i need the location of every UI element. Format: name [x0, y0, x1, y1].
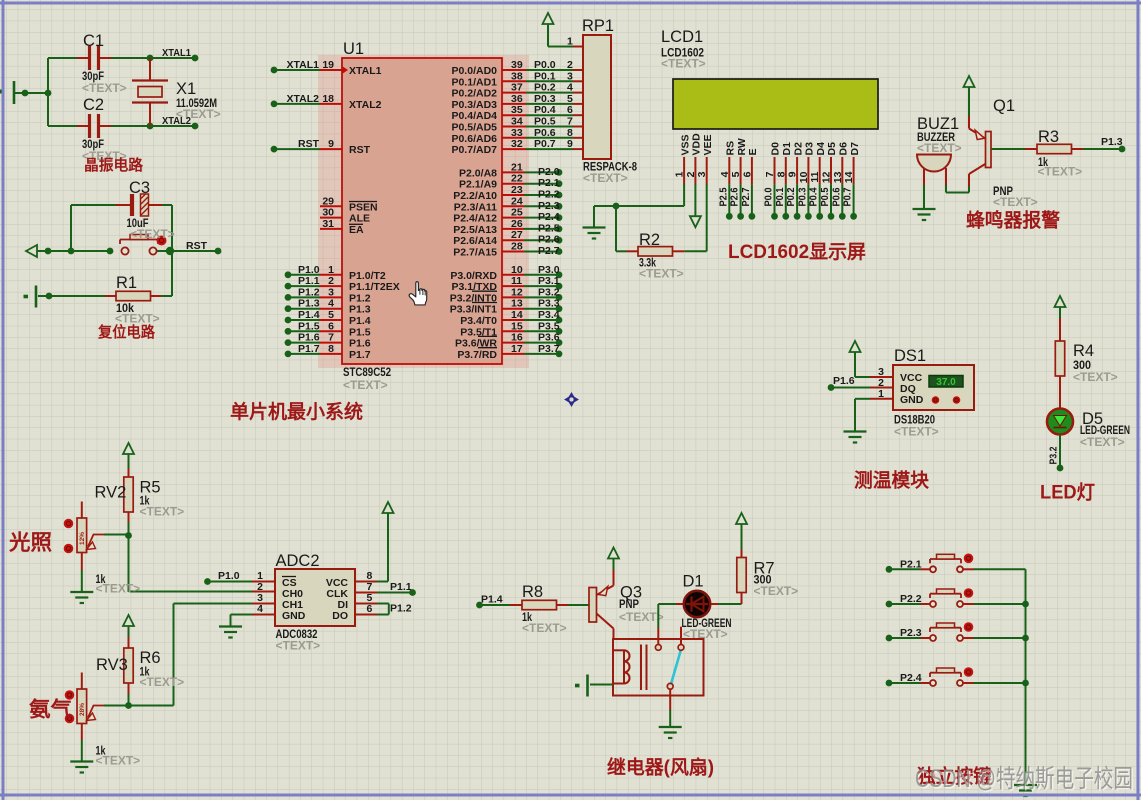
svg-text:P1.0: P1.0 — [218, 570, 240, 582]
svg-text:P1.4: P1.4 — [349, 315, 371, 327]
svg-text:光照: 光照 — [8, 532, 52, 555]
svg-text:P0.5: P0.5 — [534, 116, 556, 128]
svg-text:9: 9 — [328, 138, 334, 150]
svg-text:27: 27 — [511, 229, 523, 241]
svg-text:XTAL1: XTAL1 — [349, 65, 382, 77]
svg-text:P1.4: P1.4 — [298, 309, 320, 321]
svg-text:P0.2/AD2: P0.2/AD2 — [451, 88, 497, 100]
svg-text:36: 36 — [511, 93, 523, 105]
svg-text:P2.0: P2.0 — [538, 166, 560, 178]
svg-text:37: 37 — [511, 82, 523, 94]
svg-text:P0.3: P0.3 — [534, 93, 556, 105]
svg-text:P3.6: P3.6 — [538, 332, 560, 344]
svg-text:P0.1: P0.1 — [774, 187, 786, 206]
svg-text:5: 5 — [328, 309, 334, 321]
svg-text:<TEXT>: <TEXT> — [82, 81, 127, 95]
svg-text:P2.1: P2.1 — [900, 558, 922, 570]
svg-text:P2.1: P2.1 — [538, 177, 560, 189]
svg-text:U1: U1 — [343, 40, 364, 58]
svg-text:<TEXT>: <TEXT> — [993, 195, 1038, 209]
svg-text:P0.1/AD1: P0.1/AD1 — [451, 76, 497, 88]
svg-text:ALE: ALE — [349, 213, 370, 225]
svg-text:22: 22 — [511, 173, 523, 185]
svg-text:P0.2: P0.2 — [534, 82, 556, 94]
svg-text:<TEXT>: <TEXT> — [917, 141, 962, 155]
svg-text:P0.4: P0.4 — [808, 187, 820, 206]
svg-text:1: 1 — [328, 264, 334, 276]
svg-text:P0.7/AD7: P0.7/AD7 — [451, 144, 497, 156]
svg-text:4: 4 — [719, 171, 731, 177]
svg-text:P1.6: P1.6 — [298, 332, 320, 344]
svg-text:<TEXT>: <TEXT> — [1080, 435, 1125, 449]
svg-text:RW: RW — [736, 138, 748, 155]
svg-text:<TEXT>: <TEXT> — [661, 57, 706, 71]
svg-text:GND: GND — [900, 394, 924, 406]
svg-text:<TEXT>: <TEXT> — [96, 754, 141, 768]
svg-text:RP1: RP1 — [582, 17, 614, 35]
svg-text:1: 1 — [567, 36, 573, 48]
svg-text:P1.5: P1.5 — [298, 320, 320, 332]
svg-text:38: 38 — [511, 70, 523, 82]
svg-text:P1.2: P1.2 — [298, 286, 320, 298]
svg-text:P3.2: P3.2 — [1048, 446, 1060, 464]
svg-text:P1.7: P1.7 — [349, 349, 371, 361]
svg-text:D4: D4 — [815, 142, 827, 156]
svg-text:VSS: VSS — [679, 134, 691, 155]
svg-text:9: 9 — [567, 138, 573, 150]
svg-text:5: 5 — [567, 93, 573, 105]
svg-text:35: 35 — [511, 104, 523, 116]
svg-text:P1.7: P1.7 — [298, 343, 320, 355]
svg-text:2: 2 — [328, 275, 334, 287]
svg-text:6: 6 — [567, 104, 573, 116]
svg-text:P3.2: P3.2 — [538, 286, 560, 298]
svg-text:P3.0/RXD: P3.0/RXD — [450, 270, 497, 282]
svg-text:P2.3/A11: P2.3/A11 — [454, 201, 497, 213]
svg-text:P1.3: P1.3 — [298, 298, 320, 310]
svg-text:<TEXT>: <TEXT> — [276, 639, 321, 653]
svg-text:<TEXT>: <TEXT> — [1073, 370, 1118, 384]
svg-text:VEE: VEE — [702, 134, 714, 155]
svg-text:DO: DO — [332, 610, 348, 622]
svg-text:6: 6 — [741, 171, 753, 177]
svg-text:P0.6/AD6: P0.6/AD6 — [451, 133, 497, 145]
svg-text:P2.4: P2.4 — [900, 672, 922, 684]
svg-text:<TEXT>: <TEXT> — [1038, 165, 1083, 179]
svg-text:39: 39 — [511, 59, 523, 71]
svg-text:9: 9 — [787, 171, 799, 177]
svg-text:33: 33 — [511, 127, 523, 139]
svg-text:VDD: VDD — [691, 133, 703, 156]
svg-text:4: 4 — [328, 298, 334, 310]
svg-text:ADC2: ADC2 — [276, 552, 320, 570]
svg-text:19: 19 — [322, 59, 334, 71]
svg-text:RV3: RV3 — [96, 656, 128, 674]
svg-text:P2.7: P2.7 — [740, 187, 752, 206]
svg-text:5: 5 — [730, 171, 742, 177]
svg-text:17: 17 — [511, 343, 523, 355]
svg-text:C1: C1 — [83, 32, 104, 50]
svg-text:31: 31 — [322, 218, 334, 230]
svg-text:32: 32 — [511, 138, 523, 150]
svg-text:8: 8 — [567, 127, 573, 139]
svg-text:2: 2 — [567, 59, 573, 71]
svg-text:LED灯: LED灯 — [1040, 482, 1095, 504]
svg-text:P1.5: P1.5 — [349, 326, 371, 338]
svg-text:D5: D5 — [826, 142, 838, 156]
svg-text:P2.5: P2.5 — [538, 222, 560, 234]
svg-text:8: 8 — [775, 171, 787, 177]
svg-text:P2.4: P2.4 — [538, 211, 560, 223]
svg-text:11: 11 — [511, 275, 522, 287]
svg-text:P3.5: P3.5 — [538, 320, 560, 332]
svg-text:14: 14 — [843, 171, 855, 183]
svg-text:<TEXT>: <TEXT> — [894, 425, 939, 439]
svg-text:6: 6 — [328, 320, 334, 332]
svg-text:测温模块: 测温模块 — [854, 469, 930, 492]
svg-text:P0.6: P0.6 — [534, 127, 556, 139]
svg-text:P1.6: P1.6 — [833, 375, 855, 387]
svg-text:D1: D1 — [683, 573, 704, 591]
svg-text:D6: D6 — [838, 142, 850, 156]
svg-text:D1: D1 — [781, 142, 793, 156]
svg-text:37.0: 37.0 — [936, 377, 956, 388]
svg-text:34: 34 — [511, 116, 523, 128]
svg-text:P2.0/A8: P2.0/A8 — [459, 167, 497, 179]
svg-text:复位电路: 复位电路 — [97, 323, 156, 341]
svg-text:P2.6: P2.6 — [538, 234, 560, 246]
svg-text:P1.1: P1.1 — [298, 275, 320, 287]
svg-text:28: 28 — [511, 241, 523, 253]
svg-text:氨气: 氨气 — [29, 698, 72, 722]
svg-text:8: 8 — [328, 343, 334, 355]
svg-text:P2.3: P2.3 — [538, 200, 560, 212]
svg-text:P1.1: P1.1 — [390, 581, 412, 593]
svg-text:P1.2: P1.2 — [349, 292, 371, 304]
svg-text:<TEXT>: <TEXT> — [619, 610, 664, 624]
svg-text:18: 18 — [322, 93, 334, 105]
svg-text:P2.5/A13: P2.5/A13 — [453, 224, 497, 236]
svg-text:C2: C2 — [83, 96, 104, 114]
svg-text:P1.3: P1.3 — [1101, 136, 1123, 148]
svg-text:<TEXT>: <TEXT> — [522, 621, 567, 635]
svg-text:XTAL2: XTAL2 — [349, 99, 382, 111]
svg-text:P2.3: P2.3 — [900, 627, 922, 639]
svg-text:PSEN: PSEN — [349, 201, 378, 213]
svg-text:<TEXT>: <TEXT> — [683, 627, 728, 641]
svg-text:GND: GND — [282, 610, 306, 622]
svg-text:P3.4/T0: P3.4/T0 — [460, 315, 497, 327]
svg-text:16: 16 — [511, 332, 523, 344]
svg-text:EA: EA — [349, 224, 364, 236]
svg-text:21: 21 — [511, 161, 523, 173]
svg-text:CSDN @特纳斯电子校园: CSDN @特纳斯电子校园 — [915, 765, 1133, 793]
svg-text:12%: 12% — [79, 532, 86, 545]
svg-text:P1.1/T2EX: P1.1/T2EX — [349, 281, 400, 293]
svg-text:蜂鸣器报警: 蜂鸣器报警 — [966, 209, 1060, 232]
svg-text:12: 12 — [821, 171, 833, 183]
svg-text:P3.7/RD: P3.7/RD — [457, 349, 497, 361]
svg-text:C3: C3 — [129, 179, 150, 197]
svg-text:<TEXT>: <TEXT> — [754, 584, 799, 598]
svg-text:P3.4: P3.4 — [538, 309, 560, 321]
svg-text:RV2: RV2 — [95, 484, 127, 502]
svg-text:P3.3/INT1: P3.3/INT1 — [450, 304, 497, 316]
svg-text:P0.0: P0.0 — [763, 187, 775, 206]
svg-text:4: 4 — [567, 82, 573, 94]
svg-text:XTAL1: XTAL1 — [162, 47, 191, 59]
svg-text:P0.3: P0.3 — [796, 187, 808, 206]
svg-text:P2.7/A15: P2.7/A15 — [453, 247, 497, 259]
svg-text:P3.7: P3.7 — [538, 343, 560, 355]
svg-text:RST: RST — [349, 144, 371, 156]
svg-text:P2.6: P2.6 — [729, 187, 741, 206]
svg-text:P0.4: P0.4 — [534, 104, 556, 116]
svg-text:13: 13 — [511, 298, 523, 310]
svg-text:P0.0: P0.0 — [534, 59, 556, 71]
svg-text:1: 1 — [878, 388, 884, 400]
svg-text:R2: R2 — [639, 231, 660, 249]
svg-text:晶振电路: 晶振电路 — [84, 156, 144, 174]
svg-text:25: 25 — [511, 207, 523, 219]
svg-text:P3.0: P3.0 — [538, 264, 560, 276]
svg-text:P3.1: P3.1 — [538, 275, 560, 287]
svg-text:单片机最小系统: 单片机最小系统 — [230, 400, 363, 423]
svg-text:LCD1: LCD1 — [661, 28, 703, 46]
svg-text:11: 11 — [809, 171, 821, 182]
svg-text:26: 26 — [511, 218, 523, 230]
svg-text:6: 6 — [367, 603, 373, 615]
svg-text:D2: D2 — [792, 142, 804, 156]
svg-text:29: 29 — [322, 195, 334, 207]
svg-text:10: 10 — [511, 264, 523, 276]
svg-text:P0.7: P0.7 — [842, 187, 854, 206]
svg-text:P2.4/A12: P2.4/A12 — [453, 213, 497, 225]
svg-text:RS: RS — [725, 141, 737, 156]
svg-text:D0: D0 — [770, 142, 782, 156]
svg-text:P0.5: P0.5 — [819, 187, 831, 206]
svg-text:RST: RST — [186, 240, 208, 252]
svg-text:P0.5/AD5: P0.5/AD5 — [451, 122, 497, 134]
svg-text:P2.5: P2.5 — [717, 187, 729, 206]
svg-text:P0.2: P0.2 — [785, 187, 797, 206]
svg-text:P2.1/A9: P2.1/A9 — [459, 179, 497, 191]
svg-text:继电器(风扇): 继电器(风扇) — [607, 756, 714, 779]
svg-text:P1.6: P1.6 — [349, 338, 371, 350]
svg-text:P3.3: P3.3 — [538, 298, 560, 310]
svg-text:XTAL2: XTAL2 — [162, 115, 191, 127]
svg-text:P1.0: P1.0 — [298, 264, 320, 276]
svg-text:P2.2: P2.2 — [538, 189, 560, 201]
svg-text:<TEXT>: <TEXT> — [343, 378, 388, 392]
svg-text:P2.6/A14: P2.6/A14 — [453, 235, 497, 247]
svg-text:P0.1: P0.1 — [534, 70, 556, 82]
svg-text:<TEXT>: <TEXT> — [96, 582, 141, 596]
svg-text:<TEXT>: <TEXT> — [140, 505, 185, 519]
svg-text:DS1: DS1 — [894, 347, 926, 365]
svg-text:P0.3/AD3: P0.3/AD3 — [451, 99, 497, 111]
svg-text:P0.0/AD0: P0.0/AD0 — [451, 65, 497, 77]
svg-text:28%: 28% — [79, 703, 86, 716]
svg-text:7: 7 — [567, 116, 573, 128]
svg-text:LCD1602显示屏: LCD1602显示屏 — [728, 241, 866, 263]
svg-text:15: 15 — [511, 320, 523, 332]
svg-text:3: 3 — [567, 70, 573, 82]
svg-text:Q1: Q1 — [993, 97, 1015, 115]
svg-text:<TEXT>: <TEXT> — [583, 171, 628, 185]
svg-text:2: 2 — [685, 171, 697, 177]
svg-text:P2.2: P2.2 — [900, 593, 922, 605]
svg-text:P2.7: P2.7 — [538, 245, 560, 257]
svg-text:RST: RST — [298, 138, 320, 150]
svg-text:P0.4/AD4: P0.4/AD4 — [451, 110, 497, 122]
svg-text:P1.3: P1.3 — [349, 304, 371, 316]
svg-text:10: 10 — [798, 171, 810, 183]
svg-text:<TEXT>: <TEXT> — [639, 267, 684, 281]
svg-text:R8: R8 — [522, 583, 543, 601]
svg-text:3: 3 — [328, 286, 334, 298]
svg-text:XTAL2: XTAL2 — [287, 93, 320, 105]
svg-text:PNP: PNP — [619, 597, 639, 611]
svg-text:4: 4 — [257, 603, 263, 615]
svg-text:3: 3 — [696, 171, 708, 177]
svg-text:13: 13 — [832, 171, 844, 183]
svg-text:R3: R3 — [1038, 128, 1059, 146]
svg-text:STC89C52: STC89C52 — [343, 365, 391, 379]
svg-text:P1.2: P1.2 — [390, 603, 412, 615]
svg-text:<TEXT>: <TEXT> — [130, 227, 175, 241]
svg-text:P1.4: P1.4 — [481, 594, 503, 606]
svg-text:P0.6: P0.6 — [830, 187, 842, 206]
svg-text:7: 7 — [328, 332, 334, 344]
svg-text:24: 24 — [511, 195, 523, 207]
svg-text:P2.2/A10: P2.2/A10 — [453, 190, 497, 202]
svg-text:R1: R1 — [116, 274, 137, 292]
svg-text:<TEXT>: <TEXT> — [140, 675, 185, 689]
svg-text:P0.7: P0.7 — [534, 138, 556, 150]
svg-text:E: E — [747, 148, 759, 155]
svg-text:D7: D7 — [849, 142, 861, 156]
svg-text:D3: D3 — [804, 142, 816, 156]
svg-text:12: 12 — [511, 286, 523, 298]
svg-text:P1.0/T2: P1.0/T2 — [349, 270, 386, 282]
svg-text:7: 7 — [764, 171, 776, 177]
svg-text:30: 30 — [322, 207, 334, 219]
svg-text:14: 14 — [511, 309, 523, 321]
svg-text:23: 23 — [511, 184, 523, 196]
svg-text:XTAL1: XTAL1 — [287, 59, 320, 71]
svg-text:1: 1 — [674, 171, 686, 177]
